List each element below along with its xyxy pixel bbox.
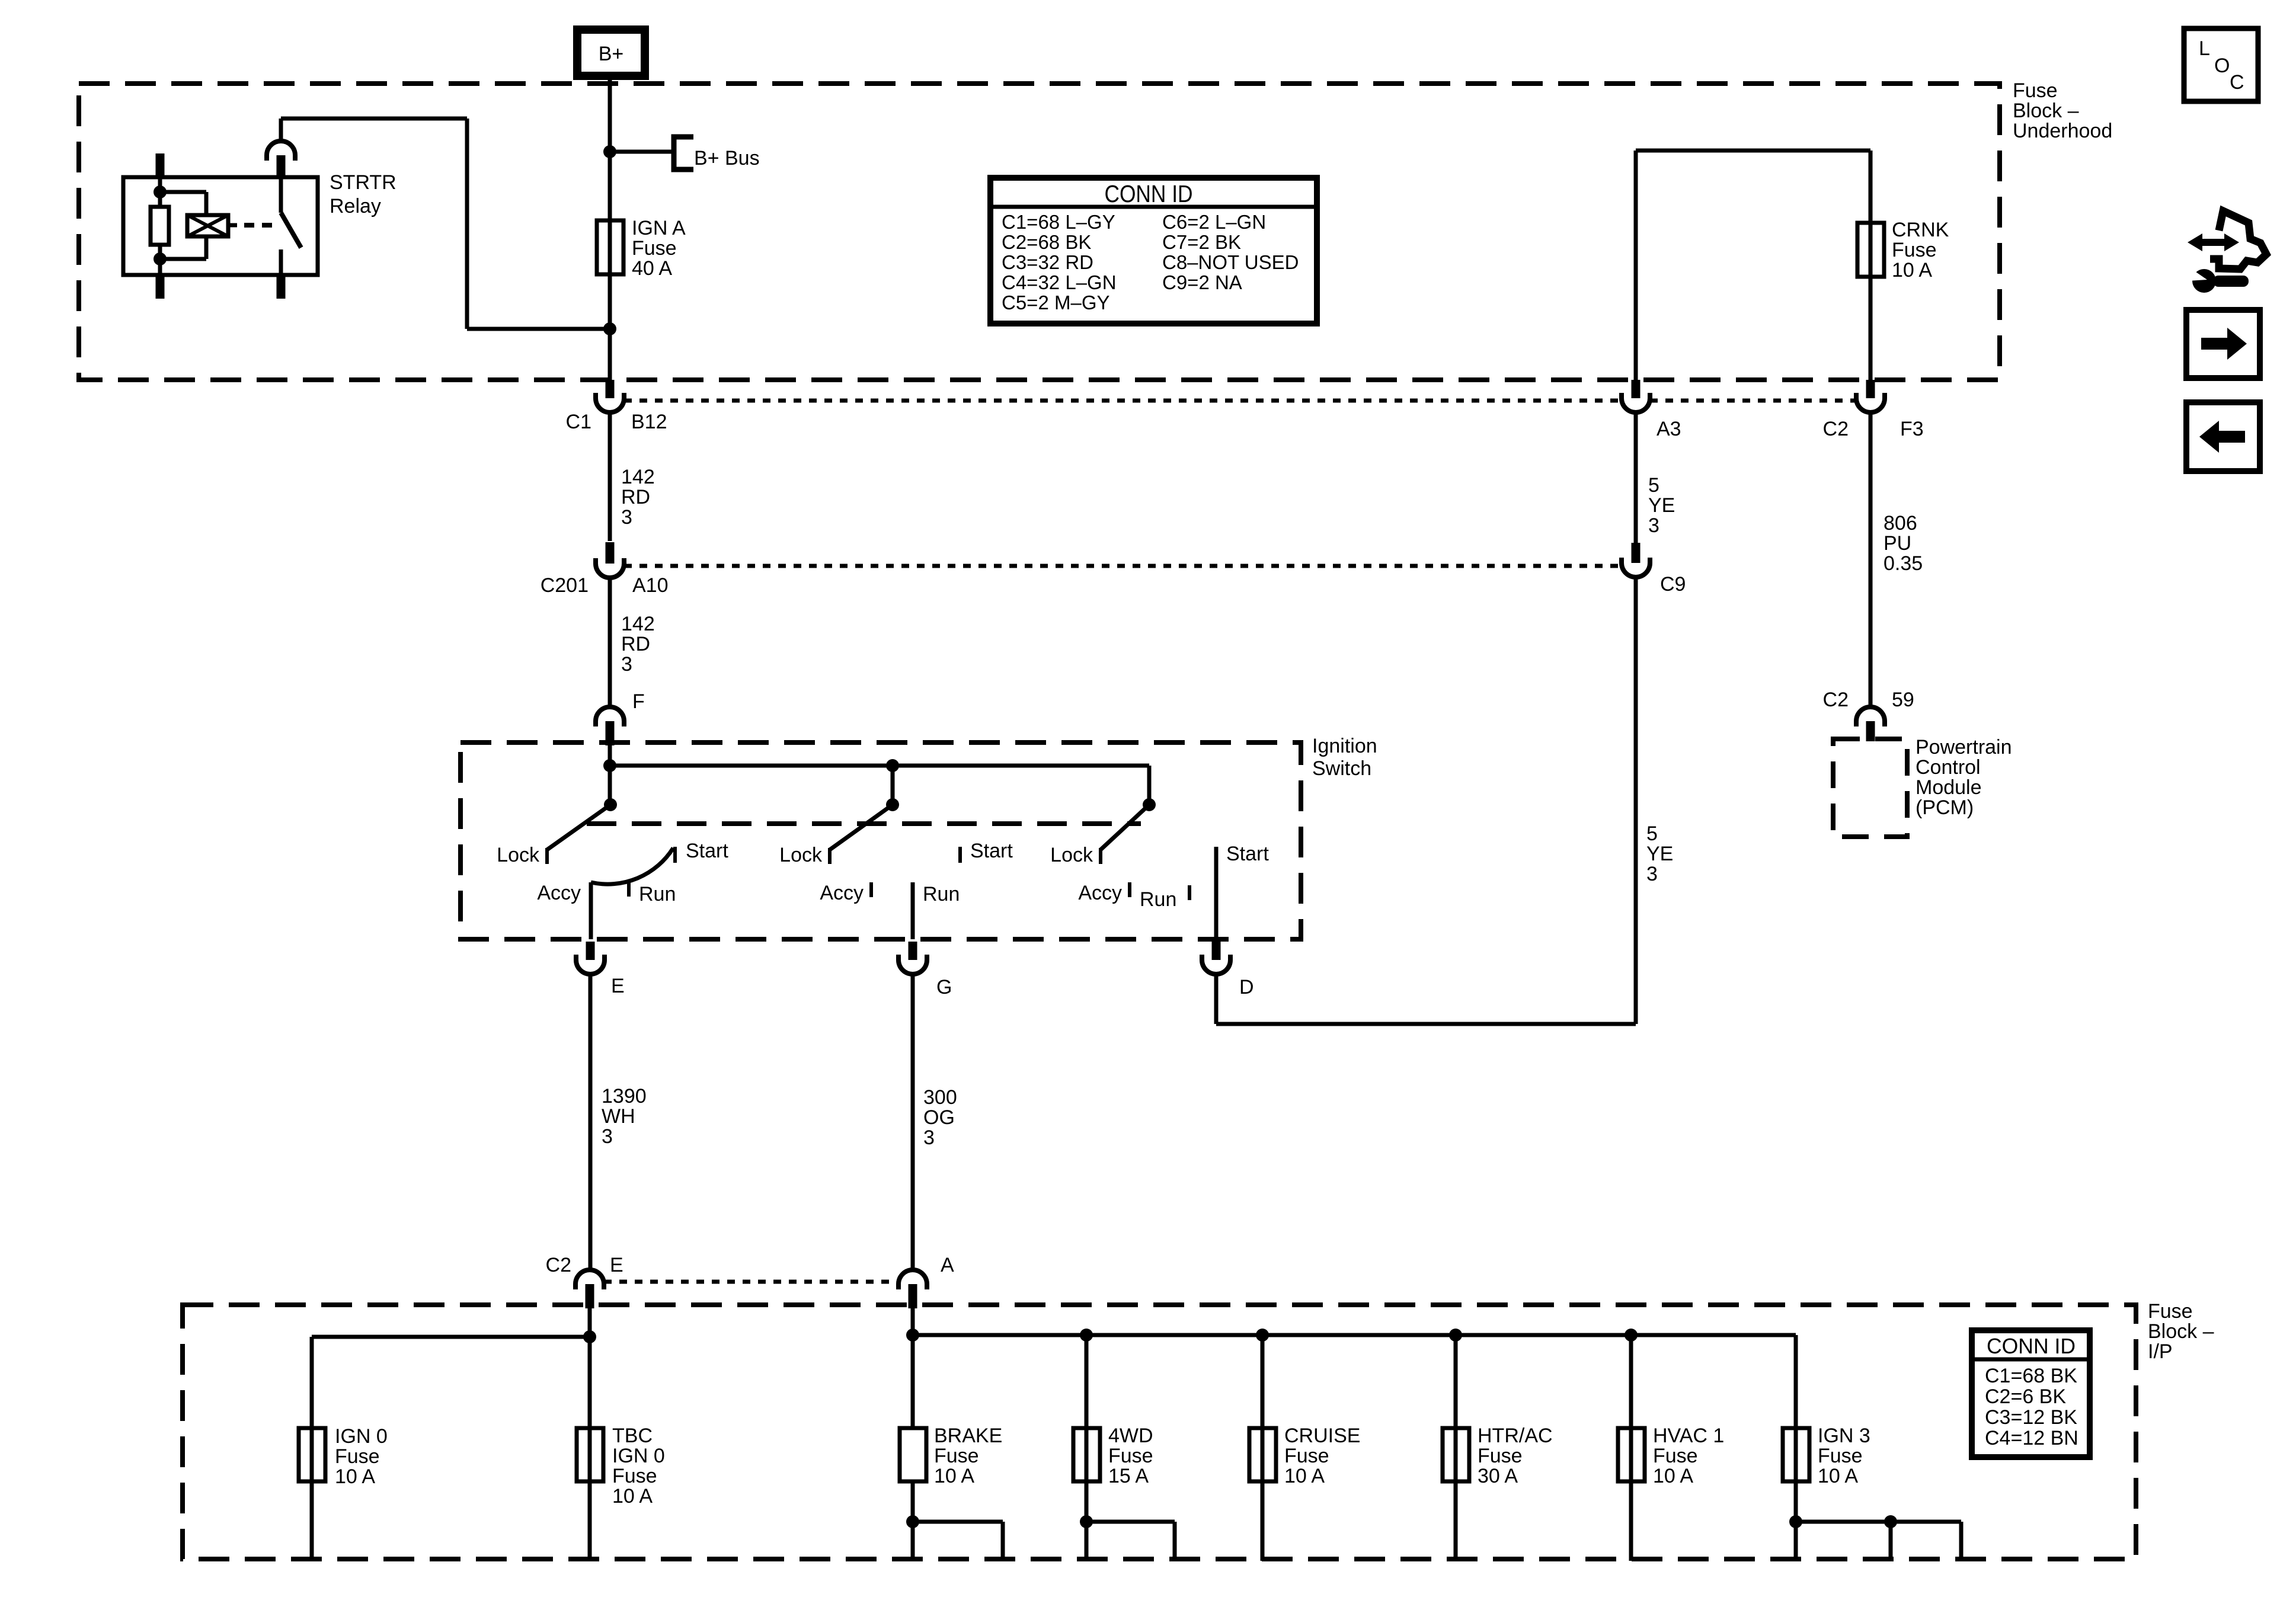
ganged switch linkage dashes [587, 821, 1141, 826]
fuse BRAKE 10 A [900, 1425, 1002, 1487]
svg-text:C7=2 BK: C7=2 BK [1162, 231, 1241, 253]
wire A feed into I/P [911, 1308, 915, 1428]
svg-text:C8–NOT USED: C8–NOT USED [1162, 251, 1299, 273]
wire HTR/AC drop [1454, 1335, 1458, 1561]
svg-text:1390: 1390 [602, 1085, 647, 1108]
fuse HTR/AC 30 A [1443, 1425, 1553, 1487]
connector C1 B12 [566, 380, 667, 433]
fuse IGN 3 10 A [1783, 1425, 1870, 1487]
svg-text:15 A: 15 A [1108, 1465, 1149, 1487]
svg-text:Accy: Accy [820, 882, 864, 904]
svg-text:C2: C2 [546, 1254, 571, 1276]
junction dot 4WD node [1080, 1329, 1093, 1342]
wire I/P right bus [913, 1333, 1796, 1337]
relay coil winding (box with X) [187, 215, 228, 236]
switch 3 blade [1101, 805, 1149, 850]
svg-text:5: 5 [1646, 822, 1658, 845]
svg-text:BRAKE: BRAKE [934, 1425, 1002, 1447]
relay switch blade [281, 213, 301, 248]
wire E feed into I/P [588, 1308, 592, 1428]
svg-text:40 A: 40 A [632, 257, 672, 280]
fuse CRUISE 10 A [1249, 1425, 1360, 1487]
junction dot battery node [603, 322, 616, 335]
label STRTR Relay [330, 171, 396, 217]
svg-text:F3: F3 [1900, 418, 1924, 440]
wire 300 OG 3 [911, 973, 957, 1271]
wire ignition switch feed [608, 745, 612, 804]
battery terminal B+ [577, 30, 645, 76]
wire HVAC 1 drop [1629, 1335, 1633, 1561]
svg-text:3: 3 [621, 653, 632, 676]
junction dot HVAC 1 node [1625, 1329, 1638, 1342]
relay STRTR box [123, 177, 318, 275]
svg-text:YE: YE [1648, 494, 1675, 517]
connector C9 [1622, 543, 1686, 596]
wire battery feed vertical (B+ to C1) [608, 76, 612, 380]
svg-text:CONN ID: CONN ID [1105, 180, 1193, 207]
connector E [576, 942, 625, 997]
svg-text:E: E [611, 975, 625, 997]
svg-text:806: 806 [1884, 512, 1917, 534]
svg-text:O: O [2214, 55, 2230, 77]
svg-text:PU: PU [1884, 532, 1911, 555]
connector D [1202, 942, 1254, 998]
fuse block underhood dashed box [79, 84, 2000, 380]
junction dot relay coil top [154, 185, 167, 199]
wire 5 YE 3 lower [1634, 576, 1674, 1024]
svg-text:Fuse: Fuse [2148, 1300, 2193, 1323]
svg-text:C6=2 L–GN: C6=2 L–GN [1162, 211, 1266, 233]
label Ignition Switch [1312, 735, 1377, 780]
junction dot switch 2 feed [886, 759, 899, 772]
svg-text:C201: C201 [541, 574, 589, 597]
svg-text:Fuse: Fuse [934, 1445, 979, 1467]
svg-text:5: 5 [1648, 474, 1659, 497]
svg-text:Fuse: Fuse [632, 237, 677, 260]
svg-text:Lock: Lock [497, 844, 540, 866]
wire BRAKE drop and branch [911, 1481, 915, 1561]
svg-text:4WD: 4WD [1108, 1425, 1153, 1447]
svg-text:STRTR: STRTR [330, 171, 396, 194]
svg-text:Fuse: Fuse [1284, 1445, 1329, 1467]
svg-text:C1: C1 [566, 411, 591, 433]
svg-text:B+: B+ [599, 43, 624, 65]
svg-text:Powertrain: Powertrain [1916, 736, 2012, 758]
relay switch fixed contact upper [279, 177, 283, 213]
svg-text:C9=2 NA: C9=2 NA [1162, 271, 1242, 293]
svg-text:OG: OG [923, 1106, 955, 1129]
connector A [898, 1254, 954, 1308]
svg-text:142: 142 [621, 466, 655, 488]
fuse 4WD 15 A [1073, 1425, 1153, 1487]
switch 3 pivot dot [1143, 798, 1156, 811]
switch 1 Lock contact [497, 844, 549, 866]
svg-text:3: 3 [621, 506, 632, 529]
junction dot B+ bus branch [603, 145, 616, 158]
switch 2 Lock contact [779, 844, 832, 866]
switch 2 Accy contact [820, 882, 873, 904]
icon electrical repair (arrows and wrench) [2188, 211, 2266, 293]
icon LOC reference box [2184, 28, 2258, 101]
svg-text:Start: Start [970, 840, 1013, 862]
svg-text:D: D [1239, 976, 1254, 998]
wire TBC drop [588, 1337, 592, 1561]
connector F [596, 690, 645, 745]
icon forward arrow box [2186, 310, 2260, 378]
wire CRUISE drop [1261, 1335, 1265, 1561]
svg-text:Relay: Relay [330, 195, 381, 217]
resistor relay suppression [151, 207, 169, 245]
connector C2 59 [1823, 689, 1914, 741]
svg-text:(PCM): (PCM) [1916, 796, 1974, 819]
relay switch pin stub bottom [277, 274, 286, 299]
fuse CRNK 10 A [1857, 219, 1949, 281]
svg-text:Ignition: Ignition [1312, 735, 1377, 757]
switch 2 pivot dot [886, 798, 899, 811]
connector line C2/E-A dotted [604, 1280, 898, 1284]
svg-text:Block –: Block – [2013, 100, 2079, 122]
svg-text:C3=12 BK: C3=12 BK [1985, 1406, 2077, 1429]
junction dot BRAKE node [906, 1329, 919, 1342]
svg-text:C3=32 RD: C3=32 RD [1002, 251, 1093, 273]
wire Run output [911, 882, 915, 939]
svg-text:0.35: 0.35 [1884, 552, 1923, 575]
switch 2 blade [830, 805, 893, 850]
wire D to crank request [1214, 973, 1219, 1024]
svg-text:C2=6 BK: C2=6 BK [1985, 1385, 2066, 1408]
svg-text:Fuse: Fuse [612, 1465, 657, 1487]
svg-text:C5=2 M–GY: C5=2 M–GY [1002, 292, 1110, 313]
svg-text:A: A [941, 1254, 954, 1276]
svg-text:10 A: 10 A [612, 1485, 653, 1507]
wire IGN 0 drop [310, 1337, 314, 1561]
svg-text:B12: B12 [631, 411, 667, 433]
switch 1 Start contact [673, 840, 728, 863]
svg-text:10 A: 10 A [934, 1465, 974, 1487]
svg-text:3: 3 [1646, 863, 1658, 885]
svg-text:59: 59 [1892, 689, 1914, 711]
svg-text:RD: RD [621, 633, 650, 655]
svg-text:Run: Run [1140, 888, 1176, 911]
svg-text:Fuse: Fuse [335, 1445, 380, 1468]
junction dot HTR/AC node [1449, 1329, 1462, 1342]
svg-text:L: L [2199, 37, 2210, 60]
svg-text:CONN ID: CONN ID [1987, 1334, 2076, 1358]
svg-text:CRNK: CRNK [1892, 219, 1949, 241]
svg-text:G: G [936, 976, 952, 998]
svg-text:IGN 0: IGN 0 [612, 1445, 665, 1467]
relay switch pin stub top [277, 155, 286, 178]
svg-text:Control: Control [1916, 756, 1981, 779]
fuse IGN 0 10 A [299, 1425, 388, 1488]
relay switch fixed contact lower [279, 249, 283, 275]
svg-text:142: 142 [621, 613, 655, 635]
svg-text:A3: A3 [1657, 418, 1681, 440]
switch 1 wiper track arc [591, 848, 673, 884]
svg-text:C2=68 BK: C2=68 BK [1002, 231, 1091, 253]
ignition switch dashed box [461, 742, 1301, 939]
svg-text:3: 3 [923, 1126, 935, 1149]
svg-text:Module: Module [1916, 776, 1982, 799]
svg-text:WH: WH [602, 1105, 635, 1128]
conn id table underhood [990, 178, 1317, 324]
wire relay coil leg [158, 177, 162, 208]
svg-text:Underhood: Underhood [2013, 120, 2112, 142]
wire 4WD drop and branch [1085, 1335, 1089, 1561]
wire B+ bus branch [610, 150, 672, 154]
wire I/P left bus [312, 1335, 590, 1339]
wire IGN 3 drop [1794, 1335, 1798, 1561]
wire 5 YE 3 upper [1634, 411, 1675, 543]
connector C2 F3 [1823, 380, 1924, 440]
svg-text:Accy: Accy [1078, 882, 1122, 904]
svg-text:3: 3 [1648, 514, 1659, 537]
svg-text:C4=32 L–GN: C4=32 L–GN [1002, 271, 1117, 293]
svg-text:IGN 0: IGN 0 [335, 1425, 388, 1448]
fuse HVAC 1 10 A [1618, 1425, 1724, 1487]
wire 806 PU 0.35 [1869, 411, 1923, 707]
junction dot TBC branch [583, 1330, 596, 1343]
label Powertrain Control Module (PCM) [1916, 736, 2012, 819]
connector dome relay switch pin [267, 141, 295, 161]
svg-text:30 A: 30 A [1478, 1465, 1518, 1487]
svg-text:C4=12 BN: C4=12 BN [1985, 1427, 2078, 1449]
junction dot ignition feed [603, 759, 616, 772]
fuse TBC IGN 0 10 A [577, 1425, 665, 1507]
svg-text:Run: Run [923, 883, 960, 905]
bus bar B+ Bus [674, 137, 760, 169]
svg-text:10 A: 10 A [1653, 1465, 1693, 1487]
svg-text:Fuse: Fuse [1478, 1445, 1523, 1467]
svg-text:C9: C9 [1660, 573, 1686, 596]
fuse IGN A 40 A [597, 217, 686, 280]
svg-text:TBC: TBC [612, 1425, 653, 1447]
switch 3 Lock contact [1050, 844, 1102, 866]
relay coil pin stub bottom [156, 274, 165, 299]
switch 3 Run contact [1140, 885, 1191, 911]
svg-text:Lock: Lock [779, 844, 823, 866]
wire crank feed top horizontal [1636, 149, 1870, 153]
svg-text:Fuse: Fuse [1653, 1445, 1698, 1467]
svg-text:IGN 3: IGN 3 [1818, 1425, 1870, 1447]
wire Start output [1214, 847, 1219, 939]
relay coil pin stub top [156, 153, 165, 178]
svg-text:C2: C2 [1823, 418, 1849, 440]
icon back arrow box [2186, 402, 2260, 471]
svg-text:Lock: Lock [1050, 844, 1093, 866]
svg-text:10 A: 10 A [1892, 259, 1932, 281]
wire Accy output [589, 882, 593, 939]
label Fuse Block - I/P [2148, 1300, 2214, 1363]
wire relay coil branch [160, 190, 206, 194]
svg-text:IGN A: IGN A [632, 217, 686, 239]
svg-text:Switch: Switch [1312, 757, 1371, 780]
wire 142 RD 3 upper [608, 411, 655, 541]
svg-text:10 A: 10 A [1284, 1465, 1325, 1487]
connector A3 [1622, 380, 1681, 440]
relay armature linkage dashes [244, 223, 277, 228]
junction dot CRUISE node [1256, 1329, 1269, 1342]
svg-text:HVAC 1: HVAC 1 [1653, 1425, 1724, 1447]
label Fuse Block - Underhood [2013, 79, 2112, 142]
wire IGN 3 output branches [1789, 1515, 1802, 1528]
svg-text:Start: Start [1226, 843, 1269, 865]
connector G [898, 942, 952, 998]
wire 142 RD 3 lower [608, 577, 655, 707]
svg-text:300: 300 [923, 1086, 957, 1109]
svg-text:Accy: Accy [537, 882, 581, 904]
switch 1 Run contact [627, 882, 676, 905]
svg-text:Start: Start [686, 840, 728, 862]
svg-text:HTR/AC: HTR/AC [1478, 1425, 1553, 1447]
svg-text:A10: A10 [632, 574, 669, 597]
svg-text:F: F [632, 690, 645, 713]
relay armature linkage lead [228, 223, 237, 228]
svg-text:RD: RD [621, 486, 650, 508]
powertrain control module box [1833, 739, 1907, 837]
wire relay switch to battery node [279, 119, 283, 141]
connector line C1 dotted [624, 399, 1622, 403]
svg-text:Fuse: Fuse [1818, 1445, 1863, 1467]
svg-text:Fuse: Fuse [1892, 239, 1937, 261]
svg-text:E: E [610, 1254, 623, 1276]
svg-text:Fuse: Fuse [1108, 1445, 1153, 1467]
connector C2 E [546, 1254, 623, 1308]
switch 1 blade [547, 805, 610, 850]
svg-text:10 A: 10 A [335, 1465, 375, 1488]
fuse block I/P dashed box [183, 1305, 2136, 1559]
switch 2 Start contact [958, 840, 1013, 863]
switch 1 pivot dot [604, 798, 617, 811]
svg-text:Block –: Block – [2148, 1320, 2214, 1343]
connector C201 A10 [541, 542, 669, 597]
svg-text:C2: C2 [1823, 689, 1849, 711]
svg-text:Run: Run [639, 883, 676, 905]
svg-text:I/P: I/P [2148, 1340, 2173, 1363]
svg-text:B+ Bus: B+ Bus [694, 147, 760, 169]
svg-text:C: C [2230, 71, 2244, 94]
connector line C201 dotted [624, 564, 1622, 568]
svg-text:Fuse: Fuse [2013, 79, 2058, 102]
svg-text:10 A: 10 A [1818, 1465, 1858, 1487]
svg-text:C1=68 L–GY: C1=68 L–GY [1002, 211, 1115, 233]
junction dot relay coil bottom [154, 252, 167, 265]
svg-text:CRUISE: CRUISE [1284, 1425, 1360, 1447]
conn id table I/P [1972, 1330, 2090, 1457]
svg-text:YE: YE [1646, 843, 1673, 865]
svg-text:C1=68 BK: C1=68 BK [1985, 1365, 2077, 1387]
switch 3 Accy contact [1078, 882, 1131, 904]
wire 1390 WH 3 [589, 973, 647, 1271]
svg-text:3: 3 [602, 1125, 613, 1148]
